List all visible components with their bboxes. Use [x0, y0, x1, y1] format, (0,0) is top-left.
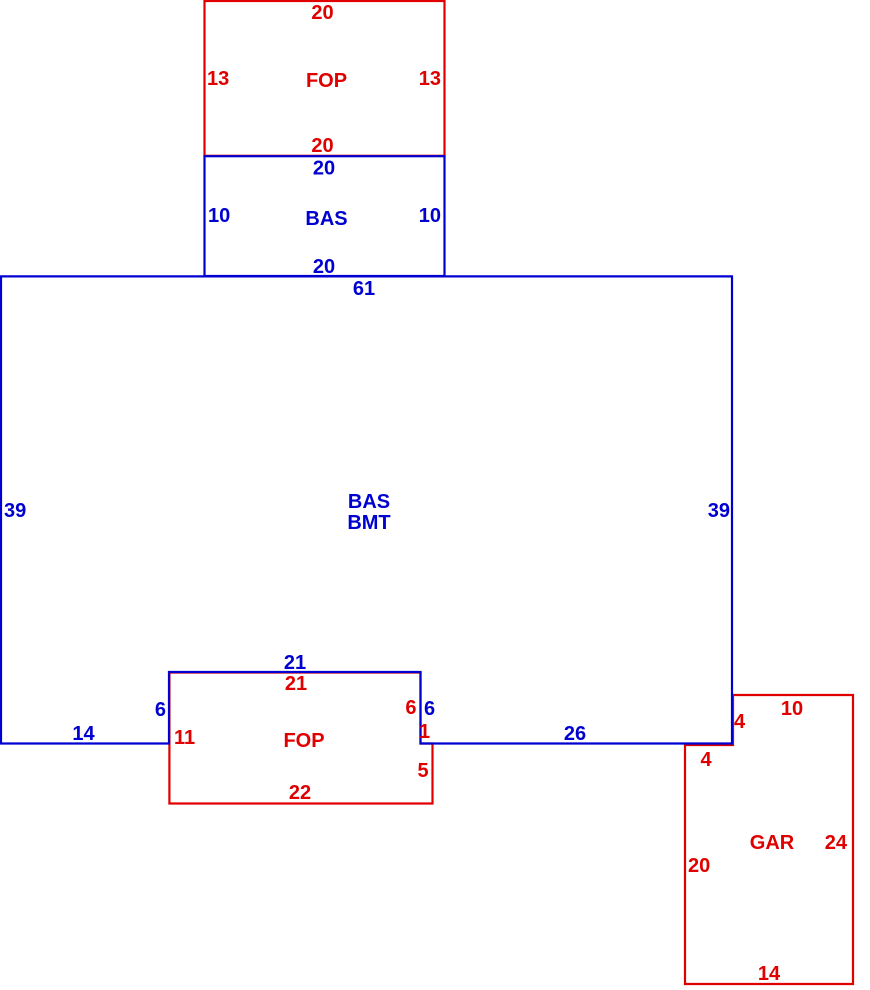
svg-text:61: 61	[353, 278, 375, 300]
svg-text:39: 39	[708, 500, 730, 522]
svg-text:10: 10	[781, 698, 803, 720]
svg-text:21: 21	[285, 673, 307, 695]
svg-text:6: 6	[424, 698, 435, 720]
svg-text:22: 22	[289, 782, 311, 804]
svg-text:BMT: BMT	[347, 512, 390, 534]
svg-text:39: 39	[4, 500, 26, 522]
svg-text:20: 20	[313, 256, 335, 278]
svg-text:20: 20	[688, 855, 710, 877]
svg-text:BAS: BAS	[305, 208, 347, 230]
svg-text:14: 14	[72, 723, 95, 745]
svg-text:1: 1	[419, 721, 430, 743]
svg-text:24: 24	[825, 832, 848, 854]
svg-text:20: 20	[313, 158, 335, 180]
svg-text:20: 20	[311, 2, 333, 24]
svg-text:13: 13	[207, 68, 229, 90]
svg-text:GAR: GAR	[750, 832, 795, 854]
svg-text:5: 5	[417, 760, 428, 782]
svg-text:6: 6	[155, 699, 166, 721]
svg-text:FOP: FOP	[306, 70, 347, 92]
svg-text:26: 26	[564, 723, 586, 745]
svg-text:21: 21	[284, 652, 306, 674]
svg-text:10: 10	[208, 205, 230, 227]
svg-text:10: 10	[419, 205, 441, 227]
svg-text:14: 14	[758, 963, 781, 985]
svg-text:4: 4	[734, 711, 746, 733]
svg-text:20: 20	[311, 135, 333, 157]
svg-text:4: 4	[700, 749, 712, 771]
svg-text:BAS: BAS	[348, 491, 390, 513]
svg-text:FOP: FOP	[283, 730, 324, 752]
svg-text:13: 13	[419, 68, 441, 90]
svg-text:11: 11	[174, 727, 195, 749]
svg-text:6: 6	[405, 697, 416, 719]
